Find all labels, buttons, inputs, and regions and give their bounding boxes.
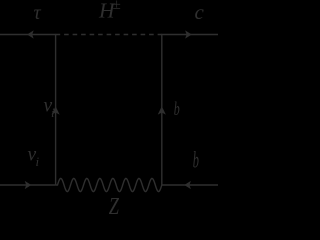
wire b incoming external line bottom-right	[162, 184, 218, 186]
arrow on c line pointing right	[186, 31, 192, 38]
svg-text:Z: Z	[109, 194, 120, 218]
svg-text:±: ±	[113, 0, 121, 13]
arrow on left vertical line pointing up	[52, 107, 59, 114]
arrow on nu_i incoming line pointing right	[25, 182, 31, 189]
wire c external line top-right	[161, 34, 218, 36]
svg-text:i: i	[36, 154, 40, 169]
svg-text:c: c	[195, 0, 205, 24]
propagator b quark right vertical line	[161, 35, 163, 186]
propagator Z boson wavy line	[56, 178, 162, 191]
propagator neutrino left vertical line	[55, 35, 57, 186]
svg-text:τ: τ	[34, 2, 42, 24]
arrow on right vertical line pointing up	[158, 107, 165, 114]
arrow on tau line pointing left	[28, 31, 33, 38]
svg-text:i: i	[51, 105, 55, 120]
svg-text:b: b	[174, 99, 180, 120]
svg-text:b: b	[193, 148, 199, 173]
wire nu_i incoming external line bottom-left	[0, 184, 56, 186]
wire tau external line top-left	[0, 34, 56, 36]
arrow on b incoming line pointing left	[185, 182, 191, 189]
propagator H charged dashed line	[56, 34, 162, 36]
